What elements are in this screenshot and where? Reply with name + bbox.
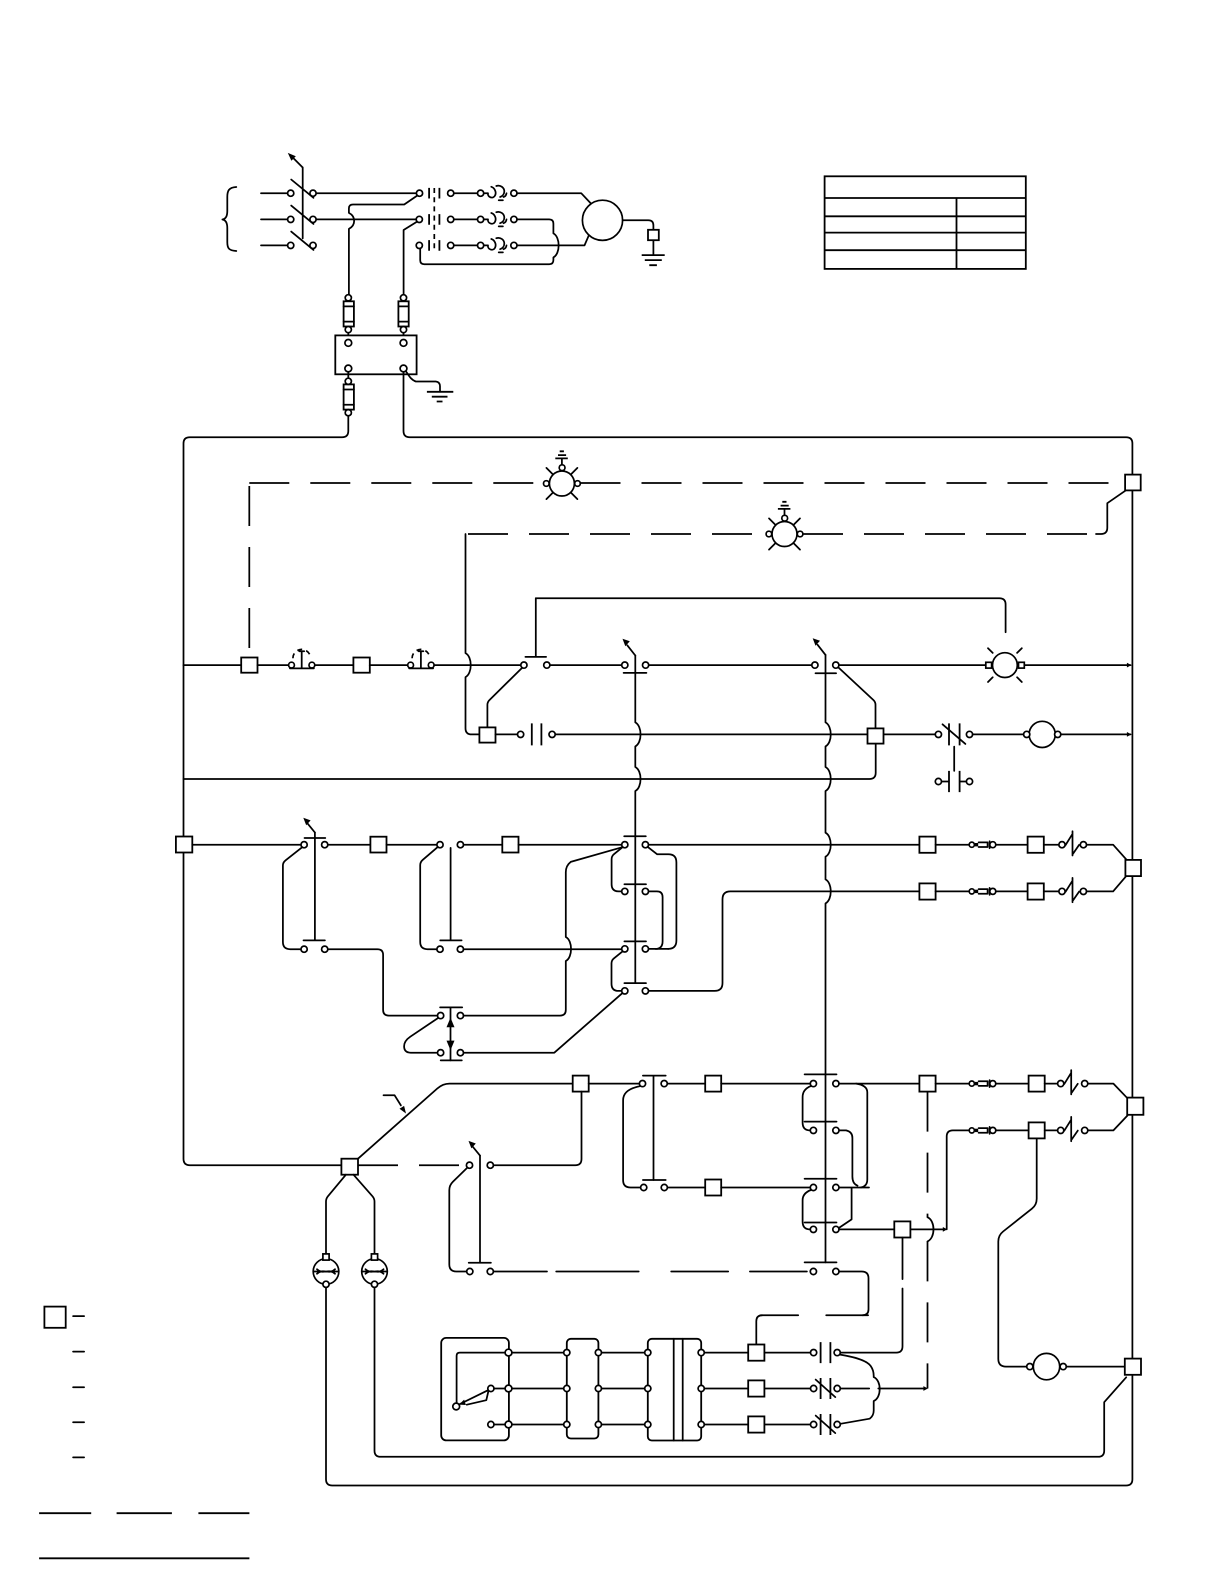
wire H2 to contact pair — [589, 1083, 640, 1085]
wire right lamp return to connector SQ16 — [375, 1287, 1127, 1456]
column825 left strap row3-row4 — [803, 1190, 811, 1229]
glow plug feed dashed vertical from SQ12 — [927, 1092, 929, 1218]
contact row2 NC with slash — [821, 1378, 831, 1399]
fusible link FL3 — [1064, 1070, 1078, 1094]
contact row3 NC with slash — [821, 1414, 831, 1435]
node supply L3 terminal — [288, 242, 294, 248]
square H2 (dimmer relay) — [573, 1076, 589, 1092]
bus connector square SQ14 — [1127, 1098, 1143, 1115]
column825 crossbar row5 (bottom) — [805, 1261, 837, 1263]
column row4 right loop up and out to row 891 — [649, 891, 920, 991]
contactor K1 pole1 — [429, 188, 439, 199]
switch S1 actuator arrow — [293, 157, 303, 167]
connector square on right bus (dash lines) — [1125, 475, 1141, 491]
wire motor to fuse link square — [623, 220, 654, 255]
connector square S2 — [370, 837, 386, 853]
wire fusible link to bus square SQ9 — [1087, 845, 1127, 860]
light switch G (DPST with arrow) — [469, 1156, 491, 1263]
contact pair P1 upper — [643, 1076, 666, 1180]
key switch body — [441, 1338, 509, 1441]
switch F strap upper-left to lower-left — [420, 848, 437, 950]
connector square S3 — [502, 837, 518, 853]
wire row734 through relay K1 and capacitor — [496, 733, 936, 735]
column contact circles — [622, 842, 628, 848]
wire start button to relay K1 coil — [487, 668, 522, 728]
disconnect switch S1 blade pole2 — [291, 206, 313, 224]
key switch rotor blade — [459, 1390, 488, 1405]
wire start signal line y=598 — [536, 598, 1006, 632]
contact pair P1 strap — [623, 1086, 641, 1187]
column crossbar row3 — [624, 940, 646, 942]
column row2 right loop down — [649, 891, 663, 949]
slow blow fuse square SB2 — [353, 658, 369, 673]
bus connector square SQ9 — [1125, 860, 1141, 876]
wire fusible link up to bus square SQ14 — [1088, 1116, 1128, 1131]
key switch edge terminals — [505, 1349, 512, 1356]
legend dash 3 — [73, 1386, 84, 1388]
wire dashed line 2 — [468, 533, 1098, 535]
wire button to interlock switch C — [550, 664, 622, 666]
legend square — [44, 1307, 65, 1328]
wire S2 to switch F — [387, 844, 437, 846]
column crossbar row1 — [624, 835, 646, 837]
wire switch C to switch D — [649, 664, 812, 666]
wire row2 loop back to row3 input — [420, 219, 558, 264]
wire contact to hour meter — [973, 733, 1024, 735]
wire to pressure switch B — [370, 664, 408, 666]
relay K2 square — [868, 728, 884, 743]
connector square SQ10 — [919, 883, 935, 899]
wire diagonal from headlight square up to row 1083 — [358, 1084, 573, 1159]
overload OL2 — [488, 212, 507, 227]
switch E strap upper-left to lower-left — [283, 848, 302, 950]
wire SQ15 to fusible link — [1045, 1129, 1058, 1131]
column825 row3 right stub and branch down to row4 — [839, 1188, 869, 1229]
overload OL3 — [488, 238, 507, 253]
wire SQ8 to fusible link — [1044, 844, 1059, 846]
wire SQ7 to inline connector — [936, 844, 970, 846]
wire rocker up-contact to column row1 — [464, 847, 622, 1015]
connector square S1 on left bus — [176, 837, 192, 853]
fuse F3 — [344, 384, 354, 409]
column crossbar row2 — [624, 883, 646, 885]
connector square SQ12 — [919, 1076, 935, 1092]
wire contactor row2 to fuse F2 drop — [404, 222, 417, 295]
wire row1 switch to contactor — [316, 192, 416, 194]
contact pair P1 lower — [643, 1179, 666, 1181]
relay square R3 — [748, 1416, 764, 1432]
wire to slow-blow fuse 2 — [315, 664, 354, 666]
wire connector to square SQ11 — [996, 890, 1028, 892]
wire dashed line 1 — [249, 482, 1125, 484]
wire switch E to square S2 — [328, 844, 371, 846]
wire column825 row5 loop to dashed glow feed — [839, 1272, 868, 1316]
wire P1 lower to square SQ6 — [668, 1187, 706, 1189]
glow controller square SQ4 — [894, 1221, 910, 1237]
brake contact lower pole (ganged) — [942, 747, 967, 782]
brace (supply source) — [222, 187, 236, 251]
hour meter gauge — [1029, 721, 1055, 747]
wire glow feed corner down to relay R1 — [756, 1315, 762, 1345]
charge warning lamp — [993, 653, 1018, 678]
wire row3 contact to overload — [454, 244, 488, 246]
node switch out L1 — [310, 190, 316, 196]
wire rocker down-contact to column row4 — [464, 993, 623, 1052]
wire S3 to gang switch column row1 — [519, 844, 622, 846]
contact row1 (plain) — [821, 1342, 831, 1363]
relay K1 coil square — [479, 727, 495, 742]
wire switch F lower pole to column row3 — [464, 948, 622, 950]
slow blow fuse square SB1 — [241, 658, 257, 673]
connector square SQ7 — [919, 837, 935, 853]
wire row3 to motor M1 — [517, 235, 589, 245]
column825 crossbar row2 — [805, 1121, 837, 1123]
interlock switch D (with gang link down) — [816, 672, 837, 674]
switch F (DPST) — [440, 848, 461, 941]
fuse F2 — [398, 301, 408, 326]
wire SQ10 to inline connector — [936, 890, 970, 892]
wire supply line 2 — [261, 218, 288, 220]
legend dash 2 — [73, 1351, 84, 1353]
wire dashed HS to light switch G — [358, 1164, 466, 1166]
legend dash 1 — [73, 1315, 84, 1317]
inline connector C2 — [969, 889, 974, 894]
glow plug GP2 — [772, 522, 797, 547]
wire gauge to bus square SQ16 — [1066, 1366, 1124, 1368]
wire R2 to contact — [764, 1388, 810, 1390]
fuse block FB1 — [335, 335, 416, 374]
inline connector C1 — [969, 842, 974, 847]
connector block B1 — [567, 1339, 599, 1439]
wire fusible link up to bus square SQ9 — [1087, 877, 1126, 892]
connector square SQ13 — [1029, 1076, 1045, 1092]
legend dash 5 — [73, 1456, 84, 1458]
footer line segments — [39, 1512, 249, 1514]
wire S1 to switch E — [192, 844, 301, 846]
wire row1 to motor M1 — [517, 193, 591, 203]
column825 crossbar row4 — [805, 1222, 837, 1224]
column row1 right loop down to row3 — [648, 847, 677, 949]
column row3 right stub — [649, 948, 669, 950]
wire contactor row1 to fuse F1 drop — [349, 196, 417, 295]
switch E (DPST with arrow) — [304, 833, 326, 941]
headlamp left — [313, 1259, 339, 1285]
wire dashed line 2 right jog to bus connector — [1096, 491, 1125, 534]
column left strap row3-row4 — [612, 951, 623, 991]
legend dash 4 — [73, 1421, 84, 1423]
connector square SQ15 — [1029, 1122, 1045, 1138]
pressure switch B — [409, 651, 433, 668]
disconnect switch S1 blade pole1 — [291, 180, 313, 198]
wire switch E lower pole to lift rocker — [328, 949, 438, 1015]
arrow label pointer — [384, 1095, 401, 1105]
inline connector C4 — [969, 1128, 974, 1133]
column825 crossbar row1 — [805, 1073, 837, 1075]
fusible link FL4 — [1064, 1117, 1078, 1141]
wire HS to right headlamp — [354, 1175, 375, 1254]
node supply L2 terminal — [288, 216, 294, 222]
rocker top bar — [440, 1006, 462, 1008]
wire SQ4 to junction x=946 — [910, 1228, 943, 1230]
relay square R1 — [748, 1345, 764, 1361]
fuel gauge — [1033, 1353, 1059, 1379]
column825 row1 right branch loop down to row3 — [856, 1084, 867, 1188]
wire row2 contact to overload — [454, 218, 488, 220]
wire SQ15 down to fuel gauge — [998, 1138, 1036, 1366]
key switch internal wire — [457, 1353, 505, 1404]
wire HS to left headlamp — [326, 1175, 346, 1254]
contactor K1 gang dashed link — [433, 188, 435, 251]
wire junction down from row 1130 corner — [947, 1130, 970, 1229]
ground (motor) — [642, 255, 665, 265]
wire row665 left bus to slow-blow fuse — [184, 664, 242, 666]
footer long line — [39, 1557, 249, 1559]
wire fusible link to bus square SQ14 — [1088, 1084, 1128, 1099]
relay square R2 — [748, 1380, 764, 1396]
glow plug GP1 — [549, 471, 574, 496]
wire R3 to contact — [764, 1424, 810, 1426]
connector square SQ6 — [705, 1180, 721, 1196]
wire B1 to connector block B2 — [602, 1353, 645, 1425]
rocker bottom bar — [441, 1059, 462, 1061]
starter motor M1 — [582, 200, 622, 240]
fuse F1 — [344, 301, 354, 326]
fusible link FL2 — [1066, 878, 1080, 902]
wire supply line 3 — [261, 244, 288, 246]
wire light switch up to square H2 — [494, 1092, 582, 1166]
wire dashed light switch lower pole to column825 row5 — [494, 1271, 548, 1273]
ground (fuse block) — [427, 392, 453, 402]
contactor K1 pole3 — [429, 240, 439, 251]
light switch strap — [449, 1168, 466, 1271]
headlight feed square HS — [341, 1159, 358, 1175]
interlock switch C (with gang link down) — [624, 672, 647, 674]
wire key switch to connector block B1 — [512, 1353, 564, 1425]
node switch out L3 — [310, 242, 316, 248]
wire lamp to right bus — [1025, 664, 1131, 666]
rocker link with arrows — [450, 1007, 452, 1060]
wire row1 exit to connector row 844 — [649, 844, 920, 846]
wire switch D to relay K2 — [838, 667, 875, 728]
start button PB1 (NO) — [525, 598, 546, 657]
wire to start button — [434, 664, 521, 666]
wire column825 row1 to connector row — [839, 1083, 919, 1085]
wire dashed line 2 left drop to accessory row — [466, 534, 480, 734]
connector block B2 — [648, 1339, 701, 1441]
wire SQ5 to column825 row1 — [721, 1083, 810, 1085]
wire SQ12 to inline connector — [936, 1083, 970, 1085]
node switch out L2 — [310, 216, 316, 222]
column825 left strap row1-row2 — [803, 1086, 811, 1130]
overload OL1 — [488, 186, 507, 201]
pressure switch A — [290, 651, 314, 668]
wire connector to square SQ13 — [996, 1083, 1029, 1085]
wire row1 loop down to row3 — [840, 1355, 880, 1424]
fusible link FL1 — [1066, 831, 1080, 855]
wire B2 to relay unit — [704, 1353, 748, 1425]
wire coil return row y=779 — [184, 744, 876, 779]
connector square SQ11 — [1028, 883, 1044, 899]
column825 crossbar row3 — [805, 1178, 837, 1180]
disconnect switch S1 link bar — [302, 168, 304, 239]
wire switch F to square S3 — [464, 844, 503, 846]
contactor K1 pole2 — [429, 214, 439, 225]
capacitor C1 — [532, 723, 542, 745]
wire left bus (fuse F3 down, left, down to headlight feed) — [184, 416, 349, 1165]
connector square SQ8 — [1028, 837, 1044, 853]
wire row1 contact to overload — [454, 192, 488, 194]
wire row2 right to dashed junction — [840, 1388, 924, 1390]
column left strap row1-row2 — [612, 847, 623, 891]
title table — [825, 176, 1026, 269]
column825 row2 right loop down to row3 — [839, 1130, 858, 1185]
wire P1 upper to square SQ5 — [667, 1083, 705, 1085]
column crossbar row4 (bottom) — [624, 982, 646, 984]
bus connector square SQ16 — [1125, 1359, 1141, 1375]
wire supply line 1 — [261, 192, 288, 194]
wire switch D to charge lamp — [839, 664, 986, 666]
headlamp right — [362, 1259, 388, 1285]
wire dashed vertical to safety row — [248, 486, 250, 654]
wire to pressure switch A — [258, 664, 289, 666]
wire block to chassis ground — [406, 371, 440, 392]
wire SQ13 to fusible link — [1045, 1083, 1058, 1085]
wire row2 switch to contactor — [316, 218, 416, 220]
wire right bus (fuse block down, right, down the right edge) — [404, 372, 1133, 1359]
wire dashed glow feed line — [761, 1314, 869, 1316]
connector square SQ5 — [705, 1076, 721, 1092]
rocker strap left terminals — [404, 1018, 438, 1053]
wire right bus bottom to headlamp return — [326, 1287, 1132, 1485]
inline connector C3 — [969, 1081, 974, 1086]
wire SQ6 to column825 row3 — [721, 1187, 810, 1189]
wire connector to square SQ8 — [996, 844, 1028, 846]
wire row1 right to glow controller SQ4 — [840, 1238, 902, 1353]
wire row 1130 to connector — [996, 1129, 1029, 1131]
wire column825 row4 to glow relay square SQ4 — [839, 1228, 894, 1230]
fusible link square on motor ground — [648, 230, 659, 240]
column825 contact circles — [810, 1081, 816, 1087]
wire gauge to right bus — [1061, 733, 1131, 735]
wire R1 to contact — [764, 1352, 810, 1354]
node supply L1 terminal — [288, 190, 294, 196]
disconnect switch S1 blade pole3 — [291, 232, 313, 250]
brake contact NC with slash — [949, 723, 960, 745]
wire block to fuse F3 — [347, 372, 349, 378]
wire SQ11 to fusible link — [1044, 890, 1059, 892]
